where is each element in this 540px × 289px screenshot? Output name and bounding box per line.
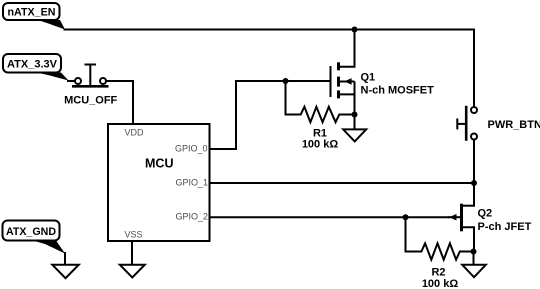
ground Q1 source [343,115,366,142]
push button MCU_OFF [72,65,109,87]
junction dot Q1 drain on rail [352,27,358,33]
svg-text:PWR_BTN: PWR_BTN [488,119,540,131]
ground ATX_GND [52,265,79,279]
net flag ATX_3.3V [3,54,69,81]
svg-text:MCU_OFF: MCU_OFF [64,95,117,107]
ground Q2 source [462,252,486,278]
transistor Q2 P-ch JFET [449,204,475,252]
resistor R2 [406,217,474,260]
wire GPIO_0 to Q1 gate [210,81,331,149]
svg-text:nATX_EN: nATX_EN [8,6,56,18]
svg-text:ATX_GND: ATX_GND [6,226,56,238]
MCU box [108,124,210,241]
junction dot R2 / Q2 source [471,249,477,255]
wire MCU_OFF to MCU VDD pin [106,81,133,124]
junction dot GPIO_0 / R1 [283,78,289,84]
net flag nATX_EN [3,3,65,30]
ground MCU VSS [120,265,145,278]
wire PWR_BTN to Q2 drain [473,140,475,207]
wire ATX_GND tail to ground [64,252,66,265]
wire rail corner down to PWR_BTN [473,29,475,108]
svg-text:N-ch MOSFET: N-ch MOSFET [361,85,435,97]
junction dot GPIO_1 / PWR_BTN [471,180,477,186]
wire GPIO_2 to Q2 gate [210,216,451,218]
wire ATX_3.3V to MCU_OFF [67,80,75,82]
svg-text:GPIO_0: GPIO_0 [175,144,208,154]
junction dot GPIO_2 / R2 [403,214,409,220]
wire nATX_EN rail [64,29,475,31]
svg-text:Q1: Q1 [361,71,376,83]
svg-text:Q2: Q2 [478,208,493,220]
wire MCU VSS to ground [131,241,133,265]
svg-text:MCU: MCU [145,157,173,171]
svg-text:GPIO_2: GPIO_2 [176,211,209,221]
net flag ATX_GND [3,221,66,254]
svg-text:VSS: VSS [125,229,143,239]
push button PWR_BTN [457,106,477,141]
svg-text:R2: R2 [431,266,445,278]
transistor Q1 N-ch MOSFET [331,30,355,115]
junction dot R1 / Q1 source [352,112,358,118]
resistor R1 [286,81,355,122]
svg-text:VDD: VDD [125,128,145,138]
wire GPIO_1 [210,182,475,184]
svg-text:100 kΩ: 100 kΩ [422,278,459,289]
svg-text:GPIO_1: GPIO_1 [176,177,209,187]
svg-text:100 kΩ: 100 kΩ [302,139,339,151]
svg-text:ATX_3.3V: ATX_3.3V [7,59,58,71]
svg-text:P-ch JFET: P-ch JFET [478,221,532,233]
